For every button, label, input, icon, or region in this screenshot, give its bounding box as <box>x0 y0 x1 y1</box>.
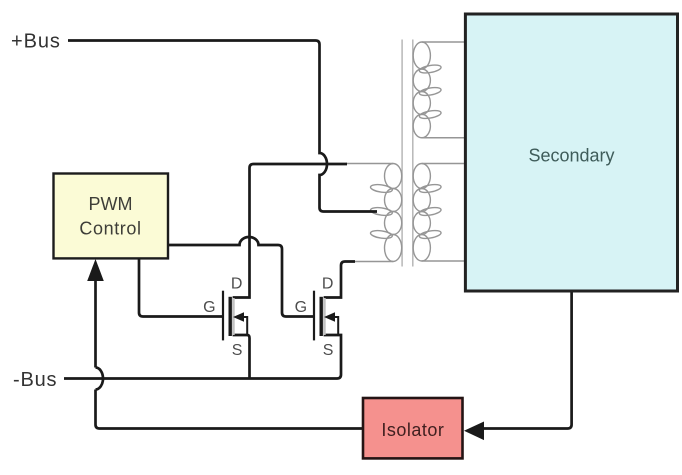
svg-text:S: S <box>232 342 243 359</box>
svg-text:Control: Control <box>79 219 141 239</box>
wire +Bus rail to T1 primary center tap (hops over primary-top wire) <box>68 41 377 212</box>
transistor Q2 (N-MOSFET) <box>314 291 338 341</box>
wire Isolator to PWM feedback (hops over -Bus) <box>96 281 364 429</box>
transformer T1 secondary winding (lower) <box>413 164 464 262</box>
transformer T1 core <box>402 40 413 267</box>
block Secondary <box>465 14 677 291</box>
wire PWM to Q1 gate <box>139 258 222 316</box>
block U1 PWM Control <box>54 174 169 259</box>
transformer T1 secondary winding (upper) <box>413 42 464 138</box>
svg-text:D: D <box>231 275 243 292</box>
wire Q1 source to -Bus rail <box>233 335 250 379</box>
svg-text:PWM: PWM <box>89 194 133 214</box>
arrowhead into Isolator <box>464 422 484 441</box>
block Isolator <box>363 398 463 458</box>
wire PWM to Q2 gate (hops over Q1 drain) <box>168 237 313 317</box>
svg-text:Isolator: Isolator <box>381 420 444 440</box>
wire Q2 drain to T1 primary bottom terminal <box>324 262 355 298</box>
svg-text:G: G <box>203 299 215 316</box>
svg-text:-Bus: -Bus <box>13 369 57 391</box>
transformer T1 center-tapped primary winding <box>346 164 402 262</box>
svg-text:D: D <box>322 275 334 292</box>
svg-text:G: G <box>295 299 307 316</box>
svg-text:+Bus: +Bus <box>11 30 61 52</box>
wire -Bus rail and Q2 source <box>64 335 341 379</box>
arrowhead into PWM <box>87 259 104 281</box>
wire T1 primary top terminal to Q1 drain <box>233 164 347 298</box>
wire Secondary to Isolator <box>484 291 572 429</box>
svg-text:S: S <box>323 342 334 359</box>
svg-text:Secondary: Secondary <box>528 146 614 166</box>
transistor Q1 (N-MOSFET) <box>223 291 247 341</box>
hop of feedback wire over -Bus <box>96 368 104 390</box>
